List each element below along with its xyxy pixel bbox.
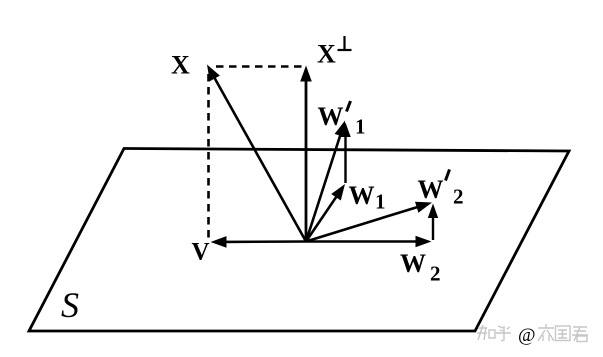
difference arrow W1 tip to W'1 tip [344, 134, 346, 184]
svg-text:S: S [61, 285, 79, 325]
vector W'1 [306, 132, 341, 241]
svg-text:W: W [418, 175, 444, 204]
svg-text:X: X [171, 51, 190, 80]
plane S parallelogram [29, 149, 569, 332]
zhi [477, 325, 487, 340]
svg-text:W: W [349, 181, 375, 210]
svg-text:1: 1 [355, 115, 366, 139]
svg-text:W: W [318, 102, 344, 131]
svg-text:V: V [192, 239, 210, 266]
difference arrow W2 tip to W'2 tip [432, 215, 434, 241]
svg-text:W: W [400, 249, 426, 278]
watermark: 知乎 @齐国君 [477, 325, 511, 341]
vector X [213, 75, 306, 241]
vector X-perp [305, 78, 308, 242]
svg-text:2: 2 [453, 184, 464, 208]
vector W'2 [306, 206, 420, 241]
vector W1 [306, 194, 338, 241]
svg-text:2: 2 [430, 262, 441, 286]
vector V [223, 240, 306, 243]
dashed horizontal from X tip to X-perp tip [216, 65, 304, 68]
qi [538, 324, 554, 341]
jun [572, 327, 588, 341]
hu [496, 326, 511, 341]
svg-text:@: @ [518, 325, 536, 346]
svg-text:X: X [317, 40, 336, 69]
svg-text:1: 1 [375, 190, 386, 214]
vector W2 [306, 240, 419, 243]
dashed vertical from X tip down to V tip [207, 74, 210, 239]
guo [556, 326, 571, 341]
